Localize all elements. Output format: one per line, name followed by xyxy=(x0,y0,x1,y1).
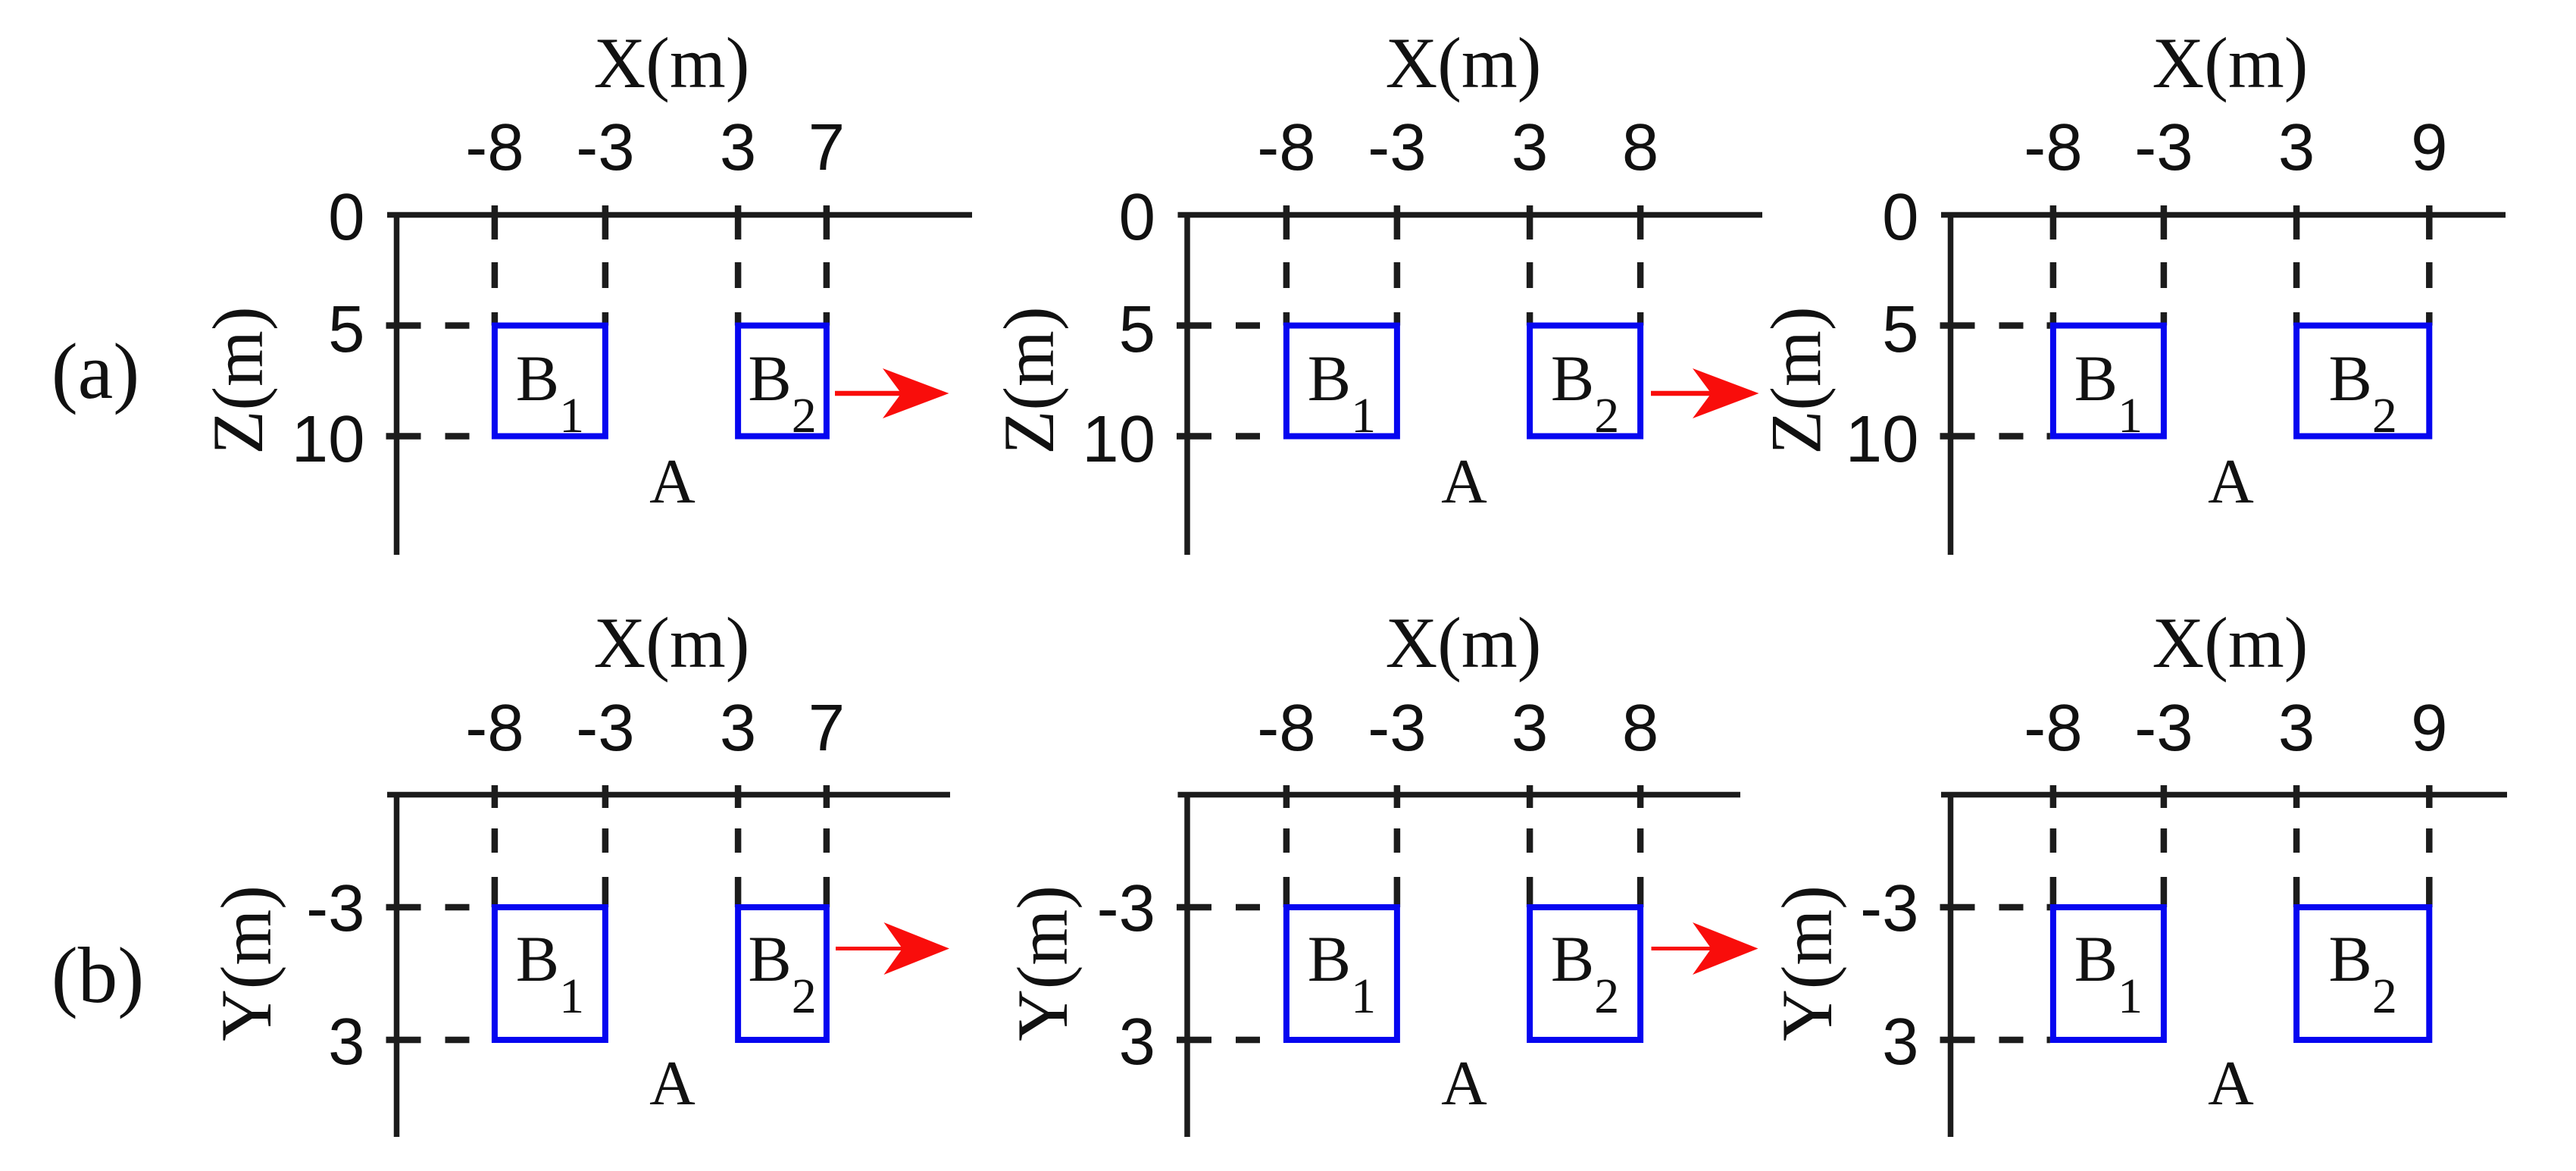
dashed vertical line + tick at X=-8 (a1) xyxy=(492,205,499,326)
box B1 (b3) xyxy=(2053,907,2164,1040)
svg-text:A: A xyxy=(2208,1048,2254,1119)
subplot a3: panel group xyxy=(1756,23,2506,555)
svg-text:3: 3 xyxy=(1882,1005,1918,1079)
svg-text:3: 3 xyxy=(720,691,756,765)
svg-text:A: A xyxy=(649,446,696,517)
dashed vertical line + tick at X=3 (a2) xyxy=(1527,205,1533,326)
red arrow shaft after B2 (a2) xyxy=(1651,391,1718,396)
dashed vertical line + tick at X=-3 (a1) xyxy=(602,205,609,326)
vertical axis line (b1) xyxy=(394,792,400,1137)
dashed vertical line + tick at X=3 (b1) xyxy=(735,785,742,907)
dashed vertical line + tick at X=8 (a2) xyxy=(1637,205,1644,326)
box B2 (b2) xyxy=(1530,907,1640,1040)
X axis line (b1) xyxy=(387,792,950,798)
svg-text:10: 10 xyxy=(1082,402,1155,476)
svg-text:5: 5 xyxy=(328,293,364,366)
dashed vertical line + tick at X=9 (a3) xyxy=(2426,205,2433,326)
svg-text:Y(m): Y(m) xyxy=(1767,885,1847,1041)
box B1 (a1) xyxy=(495,326,605,437)
svg-text:10: 10 xyxy=(1846,402,1919,476)
box B2 (a2) xyxy=(1530,326,1640,437)
svg-text:X(m): X(m) xyxy=(2152,23,2309,103)
svg-text:Z(m): Z(m) xyxy=(1756,306,1837,454)
dashed vertical line + tick at X=9 (b3) xyxy=(2426,785,2433,907)
svg-text:-3: -3 xyxy=(1368,691,1426,765)
svg-text:X(m): X(m) xyxy=(1386,603,1542,683)
vertical axis line (a3) xyxy=(1948,212,1954,555)
dashed horizontal line + tick at y-level 429.5 (a1) xyxy=(386,322,492,329)
svg-text:3: 3 xyxy=(2278,691,2315,765)
X axis line (a2) xyxy=(1178,212,1763,218)
dashed horizontal line + tick at y-level 575.5 (a3) xyxy=(1940,433,2050,440)
X axis line (a1) xyxy=(387,212,972,218)
red arrow shaft after B2 (a1) xyxy=(835,391,908,396)
svg-text:0: 0 xyxy=(328,180,364,254)
svg-text:Z(m): Z(m) xyxy=(198,306,278,454)
red arrow head (a2) xyxy=(1693,368,1759,418)
subplot b3: panel group xyxy=(1767,603,2507,1137)
svg-text:8: 8 xyxy=(1622,111,1658,184)
svg-text:7: 7 xyxy=(808,111,845,184)
subplot b2: panel group xyxy=(1002,603,1758,1137)
red arrow shaft after B2 (b1) xyxy=(836,947,908,950)
red arrow head (b1) xyxy=(884,922,950,975)
dashed horizontal line + tick at y-level 1372 (b1) xyxy=(386,1037,492,1044)
svg-text:9: 9 xyxy=(2411,111,2447,184)
dashed horizontal line + tick at y-level 575.5 (a2) xyxy=(1177,433,1283,440)
svg-text:X(m): X(m) xyxy=(2152,603,2309,683)
box B1 (b1) xyxy=(495,907,605,1040)
dashed vertical line + tick at X=-8 (b3) xyxy=(2050,785,2057,907)
dashed vertical line + tick at X=7 (b1) xyxy=(824,785,830,907)
subplot a2: panel group xyxy=(989,23,1762,555)
svg-text:A: A xyxy=(1441,446,1487,517)
box B1 (a3) xyxy=(2053,326,2164,437)
box B1 (b2) xyxy=(1286,907,1397,1040)
vertical axis line (b3) xyxy=(1948,792,1954,1137)
svg-text:3: 3 xyxy=(328,1005,364,1079)
svg-text:-8: -8 xyxy=(1257,691,1315,765)
svg-text:X(m): X(m) xyxy=(594,603,750,683)
svg-text:3: 3 xyxy=(720,111,756,184)
dashed horizontal line + tick at y-level 1197 (b1) xyxy=(386,904,492,911)
dashed vertical line + tick at X=7 (a1) xyxy=(824,205,830,326)
svg-text:-8: -8 xyxy=(465,111,524,184)
svg-text:Y(m): Y(m) xyxy=(206,885,286,1041)
dashed vertical line + tick at X=-3 (a3) xyxy=(2161,205,2168,326)
box B2 (b1) xyxy=(738,907,827,1040)
X axis line (a3) xyxy=(1941,212,2506,218)
X axis line (b2) xyxy=(1178,792,1741,798)
box B2 (b3) xyxy=(2296,907,2429,1040)
svg-text:Z(m): Z(m) xyxy=(989,306,1069,454)
svg-text:X(m): X(m) xyxy=(594,23,750,103)
dashed vertical line + tick at X=-8 (a3) xyxy=(2050,205,2057,326)
svg-text:-3: -3 xyxy=(306,872,364,945)
dashed vertical line + tick at X=3 (a1) xyxy=(735,205,742,326)
svg-text:-8: -8 xyxy=(1257,111,1315,184)
dashed horizontal line + tick at y-level 575.5 (a1) xyxy=(386,433,492,440)
svg-text:-8: -8 xyxy=(465,691,524,765)
svg-text:Y(m): Y(m) xyxy=(1002,885,1083,1041)
svg-text:-3: -3 xyxy=(1860,872,1918,945)
svg-text:(a): (a) xyxy=(52,327,140,415)
svg-text:3: 3 xyxy=(1119,1005,1155,1079)
box B1 (a2) xyxy=(1286,326,1397,437)
vertical axis line (a2) xyxy=(1184,212,1190,555)
svg-text:8: 8 xyxy=(1622,691,1658,765)
dashed vertical line + tick at X=3 (a3) xyxy=(2293,205,2300,326)
dashed vertical line + tick at X=-8 (b2) xyxy=(1283,785,1290,907)
svg-text:-3: -3 xyxy=(2134,691,2193,765)
svg-text:-3: -3 xyxy=(1097,872,1155,945)
dashed horizontal line + tick at y-level 1372 (b2) xyxy=(1177,1037,1283,1044)
svg-text:X(m): X(m) xyxy=(1386,23,1542,103)
vertical axis line (a1) xyxy=(394,212,400,555)
red arrow shaft after B2 (b2) xyxy=(1652,947,1717,950)
dashed vertical line + tick at X=-3 (b2) xyxy=(1394,785,1401,907)
svg-text:3: 3 xyxy=(2278,111,2315,184)
dashed horizontal line + tick at y-level 1197 (b2) xyxy=(1177,904,1283,911)
dashed vertical line + tick at X=-3 (a2) xyxy=(1394,205,1401,326)
svg-text:-3: -3 xyxy=(576,111,634,184)
svg-text:-8: -8 xyxy=(2024,691,2082,765)
box B2 (a3) xyxy=(2296,326,2429,437)
dashed vertical line + tick at X=3 (b2) xyxy=(1527,785,1533,907)
dashed horizontal line + tick at y-level 429.5 (a2) xyxy=(1177,322,1283,329)
svg-text:5: 5 xyxy=(1119,293,1155,366)
dashed vertical line + tick at X=-3 (b3) xyxy=(2161,785,2168,907)
dashed horizontal line + tick at y-level 429.5 (a3) xyxy=(1940,322,2050,329)
dashed vertical line + tick at X=3 (b3) xyxy=(2293,785,2300,907)
svg-text:10: 10 xyxy=(292,402,365,476)
svg-text:A: A xyxy=(1441,1048,1487,1119)
dashed vertical line + tick at X=-3 (b1) xyxy=(602,785,609,907)
red arrow head (a1) xyxy=(883,368,949,418)
dashed horizontal line + tick at y-level 1197 (b3) xyxy=(1940,904,2050,911)
svg-text:-3: -3 xyxy=(2134,111,2193,184)
svg-text:-3: -3 xyxy=(1368,111,1426,184)
box B2 (a1) xyxy=(738,326,827,437)
svg-text:(b): (b) xyxy=(52,931,144,1019)
svg-text:-3: -3 xyxy=(576,691,634,765)
vertical axis line (b2) xyxy=(1184,792,1190,1137)
X axis line (b3) xyxy=(1941,792,2507,798)
svg-text:A: A xyxy=(2208,446,2254,517)
svg-text:0: 0 xyxy=(1119,180,1155,254)
subplot a1: panel group xyxy=(198,23,972,555)
dashed horizontal line + tick at y-level 1372 (b3) xyxy=(1940,1037,2050,1044)
dashed vertical line + tick at X=8 (b2) xyxy=(1637,785,1644,907)
svg-text:7: 7 xyxy=(808,691,845,765)
svg-text:9: 9 xyxy=(2411,691,2447,765)
red arrow head (b2) xyxy=(1693,922,1758,975)
dashed vertical line + tick at X=-8 (a2) xyxy=(1283,205,1290,326)
svg-text:A: A xyxy=(649,1048,696,1119)
svg-text:5: 5 xyxy=(1882,293,1918,366)
svg-text:0: 0 xyxy=(1882,180,1918,254)
svg-text:3: 3 xyxy=(1512,691,1548,765)
svg-text:3: 3 xyxy=(1512,111,1548,184)
dashed vertical line + tick at X=-8 (b1) xyxy=(492,785,499,907)
svg-text:-8: -8 xyxy=(2024,111,2082,184)
subplot b1: panel group xyxy=(206,603,950,1137)
